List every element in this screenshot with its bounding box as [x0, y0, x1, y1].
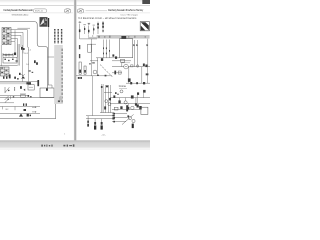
svg-text:Danberry Kewaab 46 w/Series Lo: Danberry Kewaab 46 w/Series Loader [3, 8, 33, 12]
figure thumbnail [140, 22, 149, 31]
top window fade [0, 0, 150, 3]
wire bus [110, 102, 150, 104]
wire bus [0, 102, 14, 104]
sidebar wire labels [61, 49, 64, 103]
connector box J3 [88, 44, 92, 52]
terminal pairs [103, 47, 110, 54]
fuse pin P5 [97, 22, 99, 34]
marks [115, 92, 119, 95]
dark ui block top-right [142, 0, 150, 4]
wire [0, 45, 2, 66]
page divider gutter [74, 0, 77, 141]
right columns wires [135, 39, 148, 67]
connector drop C2 [87, 116, 89, 127]
bus components [131, 64, 148, 68]
top bus wire [80, 35, 97, 39]
header rule left page [0, 12, 73, 14]
components on buses [113, 90, 145, 110]
stub wires left [112, 114, 127, 122]
terminal cluster [27, 114, 31, 117]
contact dots [14, 87, 15, 90]
legend dark bar [48, 18, 49, 27]
pin P1 [79, 22, 81, 35]
fuse F2 [114, 71, 116, 75]
fuse pin P6 [102, 21, 104, 33]
svg-text:6570-11: 6570-11 [35, 11, 44, 13]
wires from J1 [11, 28, 30, 57]
terminal dot [13, 96, 14, 97]
relay mark [146, 73, 149, 75]
splice dark [128, 78, 131, 82]
flasher box [120, 59, 124, 62]
relay contact marks [14, 77, 18, 80]
wire [112, 60, 131, 62]
stair dashes [100, 65, 112, 77]
splice dot [101, 86, 103, 88]
relay box K2 [3, 57, 17, 63]
status bar icons left group [41, 145, 52, 147]
wire riser [22, 45, 24, 82]
solenoid blobs [34, 60, 38, 65]
wire [112, 72, 122, 74]
wire bus [0, 106, 40, 108]
lamp pair [128, 116, 131, 119]
bottom bus [100, 112, 114, 114]
wire [17, 44, 19, 66]
lower wire pair [86, 115, 115, 117]
diode cluster D1 [19, 73, 25, 79]
switch SW3 [5, 99, 9, 102]
wire bus [112, 108, 140, 110]
connector block J1 [2, 28, 11, 45]
indicator lamp [120, 90, 123, 93]
hourmeter gauge [122, 63, 130, 69]
header logo oval [64, 9, 70, 13]
connector drop C4 [101, 119, 103, 130]
pin P2 [84, 26, 85, 34]
contact pair [28, 95, 32, 98]
frame wire to box B1 [48, 85, 52, 88]
connector block J2 [0, 67, 9, 76]
header rule right page [77, 12, 150, 14]
component blob [20, 86, 22, 89]
bus interconnect wires [119, 93, 143, 107]
header part-number box [34, 9, 47, 13]
wire bus [110, 97, 150, 99]
svg-text:6.2 Electrical circuit – all: 6.2 Electrical circuit – all wheel mount… [78, 17, 137, 20]
top connector row pins [79, 21, 104, 35]
arrow terminals [133, 44, 135, 46]
bus ticks [97, 75, 106, 77]
header rule [86, 10, 108, 12]
status bar [0, 141, 150, 148]
grommet blob [59, 96, 62, 101]
label sub [119, 87, 127, 89]
connector drop C3 [94, 119, 96, 130]
gauge G1 [93, 70, 97, 74]
sensor R1 [20, 94, 26, 97]
page top edge line [0, 5, 150, 7]
wire bus [0, 113, 40, 115]
wire [90, 60, 98, 62]
relay blob K1 [14, 52, 16, 55]
svg-text:14: 14 [26, 64, 28, 66]
grey label sidebar [54, 45, 63, 104]
pin stubs below J2 [3, 74, 11, 78]
svg-text:1.6.1: 1.6.1 [24, 53, 28, 55]
resistor boxes left column [79, 62, 86, 74]
wire bus [0, 95, 28, 97]
risers right [129, 67, 148, 83]
sensor dots [89, 62, 94, 64]
ground symbol [19, 113, 23, 116]
wire [19, 44, 21, 66]
ecu dark tab [121, 36, 126, 39]
bottom page edge [0, 140, 150, 142]
harness frame outline [0, 22, 48, 88]
svg-text:- 44 -: - 44 - [101, 134, 106, 136]
wire bus [0, 65, 18, 67]
battery plus bar [78, 77, 82, 80]
fuse row F1 [3, 53, 13, 56]
splice cluster [112, 54, 117, 59]
page background [0, 0, 150, 150]
grey wire bundle band [0, 82, 31, 85]
pin P3 [88, 24, 90, 35]
main bus [112, 66, 150, 68]
tick mark [16, 60, 18, 61]
switch SW1 [5, 87, 9, 93]
grey label strip [88, 35, 150, 39]
relay box K3 [28, 85, 34, 90]
ecu box U1 [120, 39, 133, 58]
legend photo icon [40, 17, 48, 27]
mid cluster [104, 85, 112, 109]
status bar lower strip [0, 148, 150, 150]
switch SW2 [5, 96, 9, 100]
diode arrow [23, 89, 25, 91]
mid cluster risers [92, 76, 110, 116]
bus wire over band [0, 81, 38, 83]
splice blob S1 [21, 47, 25, 50]
stub terminals [113, 113, 115, 123]
capacitor bar [132, 124, 134, 129]
wire end arrows [112, 115, 114, 117]
svg-text:1.1: 1.1 [28, 50, 31, 52]
component box B1 [40, 88, 54, 98]
inline fuses on riser [79, 45, 80, 49]
lamp cluster L1 [23, 103, 27, 111]
svg-text:S/N 514811001 & Above: S/N 514811001 & Above [12, 14, 30, 17]
sidebar bottom tick [58, 100, 60, 102]
motor M1 [101, 58, 103, 61]
pin P4 [93, 26, 94, 34]
arrow marks in box [32, 107, 35, 112]
pin labels row [79, 22, 95, 26]
splice [127, 115, 129, 117]
wire below legend [48, 27, 50, 85]
svg-text:Danberry Kewaab 46 w/Snow Trac: Danberry Kewaab 46 w/Snow Tractory [108, 8, 144, 12]
bus comps [130, 82, 145, 84]
bottom right component row [114, 104, 148, 114]
svg-text:Croma: Croma [119, 85, 127, 88]
harness outline box B2 [0, 98, 56, 119]
band end label [26, 82, 31, 84]
box [118, 71, 121, 74]
header logo oval right page [77, 9, 83, 13]
wire [121, 62, 123, 66]
terminal bar T1 [37, 80, 39, 86]
connector pin grid C1 [54, 29, 62, 43]
status bar icons right group [63, 144, 74, 146]
branch wires mid [90, 39, 120, 76]
diagonal wire [122, 114, 134, 124]
wire to sidebar [48, 56, 55, 58]
wire stubs [3, 96, 16, 111]
wire riser [28, 47, 30, 82]
switch marks [28, 70, 33, 73]
lower bus [126, 82, 150, 84]
wire bus [76, 75, 112, 77]
